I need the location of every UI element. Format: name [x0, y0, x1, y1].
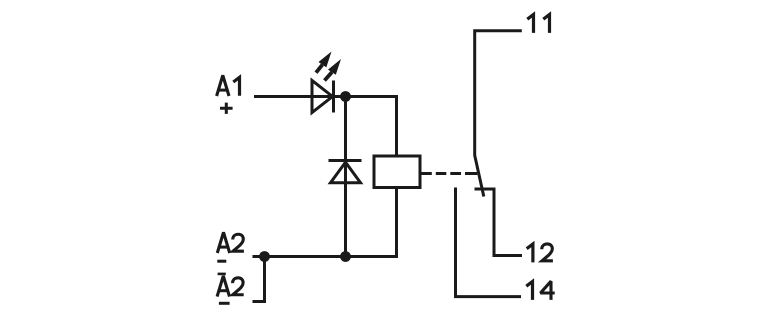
wire A2-bar stub [253, 257, 265, 302]
wire contact 12 to terminal 12 [494, 189, 522, 256]
node junction at diode bottom [340, 251, 351, 262]
wire contact 14 to terminal 14 [456, 188, 522, 297]
wire A1 to coil top [254, 97, 397, 157]
polarity minus sign under A2 [217, 260, 226, 263]
wire terminal 11 and movable contact arm [475, 31, 522, 197]
terminal label A2 [217, 232, 244, 253]
terminal label A2-bar [217, 276, 244, 297]
terminal label A1 [217, 75, 240, 96]
relay coil K1 [374, 156, 420, 188]
dashed actuator link [422, 172, 478, 175]
polarity minus sign under A2-bar [219, 302, 230, 305]
node junction at A2 [259, 251, 270, 262]
LED cathode bar [332, 81, 335, 113]
wire bottom rail A2 to coil bottom [253, 188, 397, 257]
node junction at LED output [340, 91, 351, 102]
terminal label 14 [526, 281, 554, 300]
terminal label 11 [527, 15, 549, 33]
LED arrow 1 [316, 52, 332, 73]
overbar of A2-bar [218, 273, 226, 276]
freewheel diode triangle [331, 162, 361, 183]
freewheel diode cathode bar [329, 159, 362, 162]
fixed contact 12 bar [475, 188, 496, 191]
LED arrow 2 [325, 59, 342, 81]
polarity plus sign [220, 103, 233, 114]
wire junction down through diode to bottom rail [344, 97, 347, 257]
terminal label 12 [527, 244, 553, 262]
LED triangle (anode) [312, 81, 333, 113]
